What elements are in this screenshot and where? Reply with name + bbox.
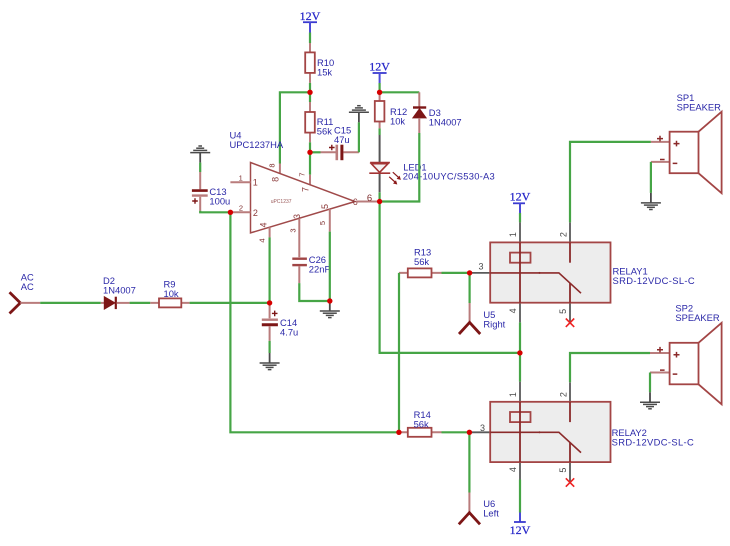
no-connect X relay1 pin5 xyxy=(566,319,574,327)
capacitor C15 47u xyxy=(321,125,359,161)
svg-text:56k: 56k xyxy=(414,256,429,267)
svg-text:22nF: 22nF xyxy=(309,263,331,274)
capacitor C13 100u xyxy=(192,172,230,211)
svg-text:12V: 12V xyxy=(300,9,321,23)
op-amp pin 2 xyxy=(230,203,258,218)
svg-text:SPEAKER: SPEAKER xyxy=(677,101,722,112)
wire C26 to ground junction xyxy=(299,283,330,301)
capacitor C14 4.7u xyxy=(262,303,298,341)
wire SP1 minus to ground xyxy=(650,162,652,193)
svg-text:3: 3 xyxy=(289,228,298,232)
junction B (12V/R12/D3 node) xyxy=(377,90,382,95)
wire junction B2 to op-amp pin 7 xyxy=(309,152,311,174)
wire R10 to junction A xyxy=(309,83,311,92)
wire relay2 pin2 to SP2 xyxy=(570,353,650,382)
power symbol 12V (above relay1 pin1) xyxy=(510,190,531,213)
junction J4 (R13/relay1 pin3/U5 node) xyxy=(467,270,472,275)
svg-text:6: 6 xyxy=(367,193,372,204)
svg-text:2: 2 xyxy=(239,203,243,212)
junction A (R10/R11/pin8 node) xyxy=(307,90,312,95)
svg-text:10k: 10k xyxy=(164,288,179,299)
svg-text:12V: 12V xyxy=(510,523,531,537)
svg-text:1: 1 xyxy=(508,392,518,397)
svg-text:8: 8 xyxy=(268,163,277,167)
svg-text:UPC1237HA: UPC1237HA xyxy=(230,139,284,150)
diode D3 1N4007 xyxy=(413,92,462,133)
svg-text:12V: 12V xyxy=(510,190,531,204)
junction J7 (R14/relay2 pin3/U6 node) xyxy=(467,430,472,435)
svg-text:2: 2 xyxy=(253,208,258,218)
speaker SP1 xyxy=(651,92,722,193)
resistor R11 xyxy=(305,102,333,142)
svg-text:3: 3 xyxy=(292,214,302,219)
svg-text:4: 4 xyxy=(508,308,518,313)
svg-text:12V: 12V xyxy=(369,60,390,74)
wire AC to D2 xyxy=(40,302,101,304)
power symbol 12V (above R12) xyxy=(369,60,390,84)
op-amp pin 5 xyxy=(318,204,330,232)
svg-text:10k: 10k xyxy=(390,116,405,127)
wire 12V to relay1 pin1 xyxy=(519,213,521,222)
resistor R10 xyxy=(305,43,334,83)
junction J1 (R9/pin4/C14 node) xyxy=(267,300,272,305)
ground (below C14) xyxy=(260,353,280,370)
wire junction B2 to C15 xyxy=(310,151,321,153)
svg-text:8: 8 xyxy=(271,177,281,182)
svg-text:1: 1 xyxy=(253,177,258,187)
svg-text:56k: 56k xyxy=(414,419,429,430)
wire 12V to junction B xyxy=(379,83,381,92)
wire junction A to R11 xyxy=(309,92,311,102)
wire pin6 net vertical to relay junction D xyxy=(380,202,520,353)
svg-text:AC: AC xyxy=(21,281,34,292)
AC input connector xyxy=(10,272,41,314)
wire C14 to ground xyxy=(269,341,271,353)
svg-text:5: 5 xyxy=(320,204,330,209)
wire pin5 to ground junction xyxy=(329,232,331,301)
wire R14 to junction J7 xyxy=(442,431,470,433)
ground (above C15, inverted) xyxy=(349,106,369,123)
LED1 204-10UYC/S530-A3 xyxy=(369,135,495,192)
relay RELAY2 SRD-12VDC-SL-C xyxy=(469,382,694,482)
wire D3 to junction C xyxy=(380,133,420,202)
svg-text:3: 3 xyxy=(479,262,484,272)
op-amp pin 7 lead xyxy=(309,175,311,185)
svg-text:1: 1 xyxy=(239,173,243,182)
wire relay2 pin4 to 12V xyxy=(519,480,521,513)
svg-text:1N4007: 1N4007 xyxy=(103,284,136,295)
svg-text:5: 5 xyxy=(318,221,327,225)
speaker SP2 xyxy=(650,303,722,405)
wire R11 to junction B2 xyxy=(309,142,311,152)
op-amp pin 8 lead xyxy=(279,164,281,174)
resistor R9 xyxy=(150,278,189,307)
svg-text:2: 2 xyxy=(558,232,568,237)
svg-text:4: 4 xyxy=(259,222,269,227)
svg-text:1: 1 xyxy=(508,232,518,237)
op-amp pin 3 xyxy=(289,214,303,257)
svg-text:100u: 100u xyxy=(209,195,230,206)
op-amp pin 1 xyxy=(230,173,257,187)
junction B2 (R11/C15/pin7 node) xyxy=(307,150,312,155)
wire relay1 pin2 to SP1 xyxy=(570,142,651,223)
relay RELAY1 SRD-12VDC-SL-C xyxy=(470,222,695,322)
wire R13 right to junction J4 xyxy=(442,272,470,274)
svg-text:7: 7 xyxy=(301,187,311,192)
wire R9 to junction J1 xyxy=(190,302,270,304)
wire LED1 to junction C xyxy=(379,192,381,201)
junction C (pin6/LED1/D3 node) xyxy=(377,199,382,204)
diode D2 1N4007 xyxy=(101,275,136,309)
ground (below SP1) xyxy=(641,193,661,210)
wire junction J4 down to U5 xyxy=(469,273,471,303)
junction J2 (pin2/C13 node) xyxy=(228,210,233,215)
svg-text:47u: 47u xyxy=(334,134,350,145)
junction D (relay1 pin4/relay2 pin1 node) xyxy=(517,350,522,355)
svg-text:204-10UYC/S530-A3: 204-10UYC/S530-A3 xyxy=(403,171,495,182)
svg-text:1N4007: 1N4007 xyxy=(429,117,462,128)
ground (below C26/pin5) xyxy=(320,301,340,318)
wire 12V to R10 xyxy=(309,33,311,44)
resistor R14 xyxy=(399,409,442,437)
svg-text:4: 4 xyxy=(508,467,518,472)
no-connect X relay2 pin5 xyxy=(566,478,574,486)
wire pin4 to junction J1 xyxy=(269,237,271,303)
svg-text:7: 7 xyxy=(298,172,307,176)
wire SP2 minus to ground xyxy=(649,373,651,393)
svg-text:3: 3 xyxy=(480,423,485,433)
wire ground to C13 xyxy=(199,163,201,172)
resistor R13 xyxy=(399,247,442,278)
connector U5 Right xyxy=(459,303,506,334)
svg-text:SRD-12VDC-SL-C: SRD-12VDC-SL-C xyxy=(613,275,696,286)
op-amp pin 6 lead xyxy=(356,193,380,204)
connector U6 Left xyxy=(459,493,499,525)
op-amp pin 8 labels xyxy=(268,163,281,181)
svg-text:4.7u: 4.7u xyxy=(280,326,298,337)
svg-text:4: 4 xyxy=(257,238,266,242)
op-amp U4 UPC1237HA xyxy=(230,129,358,233)
wire junction A to op-amp pin 8 xyxy=(280,92,310,163)
ground (below SP2) xyxy=(640,392,660,409)
svg-text:15k: 15k xyxy=(317,67,332,78)
power symbol 12V (below relay2 pin4, inverted) xyxy=(510,513,531,538)
svg-text:SPEAKER: SPEAKER xyxy=(675,312,720,323)
svg-text:uPC1237: uPC1237 xyxy=(271,199,292,205)
power symbol 12V (top, above R10) xyxy=(300,9,321,33)
op-amp pin 4 xyxy=(257,222,269,242)
op-amp pin 7 labels xyxy=(298,172,311,192)
wire R13 left to junction J6 xyxy=(398,273,400,432)
junction J6 (pin2 net/R13/R14 node) xyxy=(396,430,401,435)
svg-text:2: 2 xyxy=(558,392,568,397)
wire R12 to LED1 xyxy=(379,128,381,135)
wire junction B to D3 xyxy=(380,91,420,93)
svg-text:Left: Left xyxy=(483,508,499,519)
wire junction J2 down to R14 row xyxy=(230,212,399,432)
wire C15 to ground xyxy=(358,122,360,152)
wire D2 to R9 xyxy=(130,302,151,304)
svg-text:SRD-12VDC-SL-C: SRD-12VDC-SL-C xyxy=(612,436,695,447)
svg-text:Right: Right xyxy=(483,318,505,329)
svg-text:56k: 56k xyxy=(317,126,332,137)
svg-text:5: 5 xyxy=(558,309,568,314)
resistor R12 xyxy=(375,92,407,128)
junction G (C26/pin5/ground node) xyxy=(327,298,332,303)
wire C13 to junction J2 xyxy=(200,211,230,213)
capacitor C26 22nF xyxy=(292,254,330,283)
wire junction J7 down to U6 xyxy=(468,432,470,492)
ground (above C13, inverted) xyxy=(190,146,210,163)
wire relay1 pin4 to junction D and relay2 pin1 xyxy=(519,322,521,381)
svg-text:5: 5 xyxy=(558,468,568,473)
